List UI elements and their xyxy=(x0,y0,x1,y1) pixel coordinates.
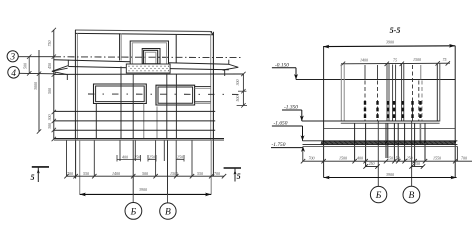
foundation block bottom double line (-1.350) xyxy=(302,120,440,122)
svg-text:Б: Б xyxy=(130,207,137,217)
svg-text:4: 4 xyxy=(11,69,16,79)
svg-text:700: 700 xyxy=(67,171,73,176)
horizontal plinth lines below windows xyxy=(54,110,215,112)
ground level line -0.150 xyxy=(296,79,455,81)
svg-text:550: 550 xyxy=(83,171,89,176)
svg-text:450: 450 xyxy=(47,63,52,69)
section mark 5 right xyxy=(224,167,241,169)
thin line below block xyxy=(324,128,456,130)
svg-text:250: 250 xyxy=(407,155,413,160)
right foundation wall (dark double) xyxy=(436,63,438,121)
svg-text:300: 300 xyxy=(235,80,240,86)
left wall double line xyxy=(74,30,76,140)
verticals below block xyxy=(355,123,425,166)
left foundation wall (gray double) xyxy=(340,64,342,121)
svg-text:250: 250 xyxy=(414,161,420,166)
axis circle V (В) bottom left drawing xyxy=(167,194,169,202)
right extension line xyxy=(454,46,456,178)
dash-dot line through window centers xyxy=(88,93,243,95)
axis lines to circles xyxy=(377,121,379,186)
svg-text:150: 150 xyxy=(387,155,393,160)
building top edge double line xyxy=(75,30,212,32)
dim 500 between axes 3-4 xyxy=(28,57,30,74)
svg-text:300: 300 xyxy=(47,115,52,121)
svg-text:75: 75 xyxy=(393,57,397,62)
svg-text:500: 500 xyxy=(47,88,52,94)
window edge extension verticals below windows xyxy=(95,104,97,139)
heavy hatch dashes in block zone xyxy=(365,101,420,120)
total dim 3900 left xyxy=(80,193,212,195)
right wall double line xyxy=(210,34,212,140)
svg-text:250: 250 xyxy=(177,154,183,159)
section dim row 1 xyxy=(303,160,472,162)
dotted sill band xyxy=(126,64,170,73)
break symbol right xyxy=(223,60,239,76)
svg-text:1400: 1400 xyxy=(112,171,120,176)
svg-text:500: 500 xyxy=(23,63,28,69)
wall pier line left of recess xyxy=(119,33,121,60)
right window W2 xyxy=(156,85,195,105)
svg-text:500: 500 xyxy=(235,96,240,102)
svg-text:500: 500 xyxy=(142,171,148,176)
break symbol left xyxy=(52,60,69,80)
svg-text:750: 750 xyxy=(47,41,52,47)
svg-text:400: 400 xyxy=(122,154,128,159)
svg-text:3900: 3900 xyxy=(139,187,147,192)
wall band lines right of W2 xyxy=(195,86,211,88)
main dim row 1 xyxy=(67,175,225,177)
axis circle V (В) section xyxy=(403,186,420,203)
svg-text:400: 400 xyxy=(357,155,363,160)
svg-text:3900: 3900 xyxy=(386,40,394,45)
slab band top line xyxy=(54,60,130,62)
slab band bottom line (axis 4 level) xyxy=(54,73,244,75)
svg-text:75: 75 xyxy=(443,57,447,62)
section dim row 2 xyxy=(363,164,425,168)
section total dim 3900 xyxy=(324,177,457,179)
ground line double xyxy=(54,138,224,140)
inner vertical dim chain xyxy=(53,30,55,140)
top dim 3900 xyxy=(323,45,455,48)
interior vertical lines: solid above ground, dashed below xyxy=(365,64,421,122)
svg-text:250: 250 xyxy=(134,154,140,159)
svg-text:700: 700 xyxy=(309,155,315,160)
svg-text:700: 700 xyxy=(214,171,220,176)
svg-text:150: 150 xyxy=(394,155,400,160)
svg-text:5-5: 5-5 xyxy=(390,26,401,35)
svg-text:5: 5 xyxy=(237,172,241,181)
vertical pier/axis lines through windows xyxy=(120,67,122,140)
axis circle B (Б) section xyxy=(370,186,386,202)
section mark 5 left xyxy=(32,166,49,168)
horizontal dash-dot axis line (axis 3 level) xyxy=(54,56,243,59)
small dim row 400/250 xyxy=(117,155,184,162)
axis circle 3 xyxy=(7,51,18,62)
svg-text:1550: 1550 xyxy=(433,155,441,160)
svg-text:3: 3 xyxy=(9,53,15,63)
svg-text:1400: 1400 xyxy=(360,57,368,62)
svg-text:3900: 3900 xyxy=(386,172,394,177)
foundation extension lines below ground xyxy=(66,140,68,176)
axis circle 4 xyxy=(8,67,20,79)
svg-text:3000: 3000 xyxy=(33,82,38,90)
svg-text:1500: 1500 xyxy=(413,57,421,62)
axis 4 leader line xyxy=(19,72,54,75)
svg-text:1500: 1500 xyxy=(339,155,347,160)
outer vertical dim line 3000 xyxy=(38,50,40,132)
axis 3 leader line xyxy=(18,56,54,58)
svg-text:В: В xyxy=(408,191,414,201)
central small window xyxy=(144,50,158,64)
dim row 2 of section xyxy=(341,62,450,65)
central recess outer xyxy=(130,41,168,64)
right side small vertical dim chain xyxy=(242,74,244,105)
svg-text:250: 250 xyxy=(149,154,155,159)
slab band middle line xyxy=(68,67,229,70)
top-right corner bevel xyxy=(211,32,214,35)
svg-text:700: 700 xyxy=(461,155,467,160)
svg-text:В: В xyxy=(165,208,171,218)
svg-text:300: 300 xyxy=(47,123,52,129)
svg-text:1500: 1500 xyxy=(170,171,178,176)
svg-text:Б: Б xyxy=(375,191,382,201)
left window W1 xyxy=(94,84,147,104)
footing hatched strip xyxy=(303,140,458,142)
svg-text:5: 5 xyxy=(31,173,35,182)
svg-text:550: 550 xyxy=(197,171,203,176)
wall joint line right of recess xyxy=(175,35,177,63)
left extension line xyxy=(323,47,325,178)
central recess inner xyxy=(142,49,160,65)
footing edge extension verticals xyxy=(456,146,458,161)
svg-text:250: 250 xyxy=(369,161,375,166)
axis circle B (Б) bottom left drawing xyxy=(132,194,134,202)
window sill seat dark line xyxy=(142,63,160,65)
